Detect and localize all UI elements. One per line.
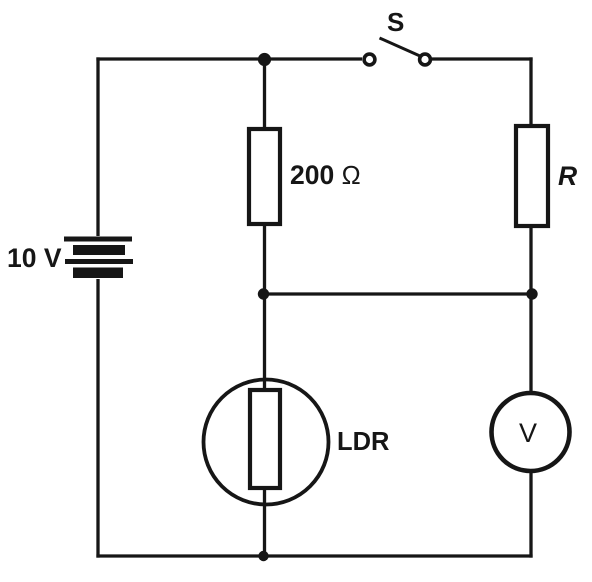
- resistor R: [516, 126, 548, 226]
- wire bottom horizontal: [96, 554, 532, 557]
- wire middle branch top: [263, 59, 266, 127]
- svg-text:R: R: [558, 161, 577, 191]
- wire left vertical lower: [96, 279, 99, 558]
- node junction bottom: [258, 551, 268, 561]
- svg-text:LDR: LDR: [337, 428, 389, 456]
- wire middle branch between resistor and LDR: [263, 226, 266, 390]
- svg-text:V: V: [519, 418, 537, 448]
- wire left vertical upper: [96, 57, 99, 236]
- wire top-left horizontal: [96, 57, 362, 60]
- svg-text:200 Ω: 200 Ω: [290, 160, 361, 190]
- battery B1 10 V: [64, 237, 133, 279]
- switch S: [364, 38, 430, 65]
- wire top-right horizontal: [431, 57, 533, 60]
- node junction middle-left: [258, 288, 269, 299]
- resistor 200 ohm: [249, 129, 280, 224]
- node junction top: [258, 53, 271, 66]
- wire right vertical lower: [529, 471, 532, 558]
- node junction middle-right: [526, 288, 537, 299]
- voltmeter V: [492, 393, 570, 471]
- wire right vertical middle: [529, 228, 532, 392]
- wire middle horizontal: [264, 292, 533, 295]
- svg-text:10 V: 10 V: [7, 243, 62, 273]
- wire right vertical upper: [529, 57, 532, 124]
- wire middle branch below LDR: [263, 489, 266, 556]
- LDR: [204, 380, 329, 505]
- svg-text:S: S: [387, 7, 404, 37]
